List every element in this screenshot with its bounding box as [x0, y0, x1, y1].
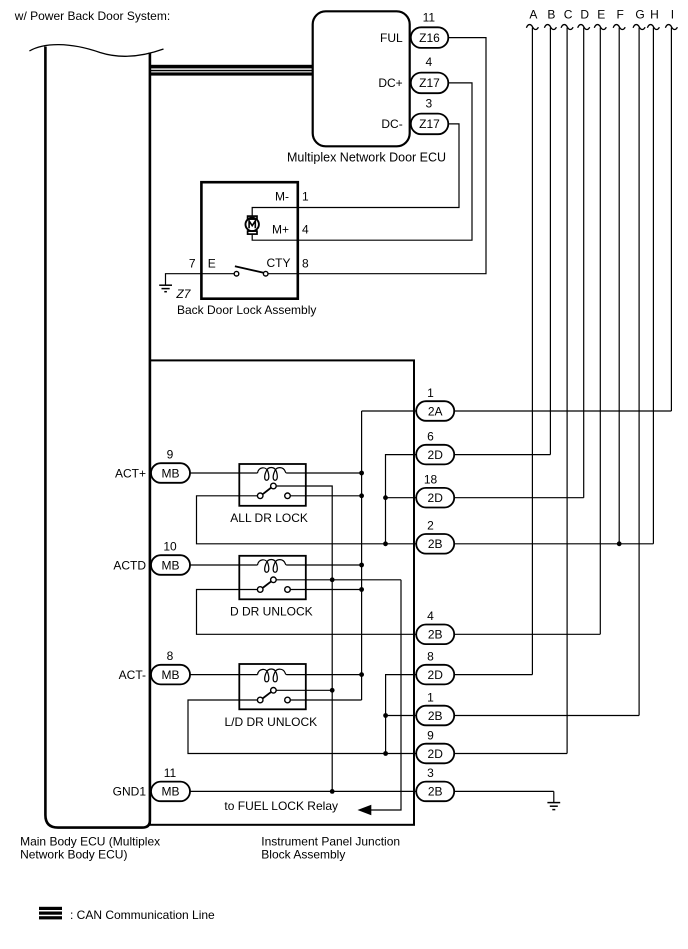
- svg-text:H: H: [650, 8, 659, 22]
- CAN legend symbol: [39, 907, 62, 920]
- wire line A: [531, 28, 533, 675]
- svg-text:9: 9: [427, 728, 434, 742]
- svg-text:ALL DR LOCK: ALL DR LOCK: [230, 511, 308, 525]
- connector 2D pin 18: [416, 473, 454, 508]
- svg-text:7: 7: [189, 257, 196, 271]
- svg-text:MB: MB: [162, 785, 180, 799]
- wire Z16 to CTY: [298, 38, 486, 274]
- node letters A-I: [529, 8, 674, 22]
- svg-text:Z17: Z17: [419, 76, 440, 90]
- wire line H: [652, 28, 654, 544]
- svg-text:E: E: [597, 8, 605, 22]
- svg-text:2B: 2B: [428, 785, 443, 799]
- svg-text:3: 3: [425, 96, 432, 110]
- svg-text:2B: 2B: [428, 537, 443, 551]
- wire 2B(4) row right: [454, 633, 600, 635]
- svg-text:2: 2: [427, 519, 434, 533]
- relay ALL DR LOCK: [230, 464, 308, 525]
- svg-text:18: 18: [424, 473, 438, 487]
- svg-text:2D: 2D: [428, 491, 444, 505]
- wire 2B(2) row right: [454, 543, 653, 545]
- wire ACT+ row: [190, 472, 362, 474]
- svg-text:to FUEL LOCK Relay: to FUEL LOCK Relay: [224, 799, 338, 813]
- connector 2B pin 1: [416, 690, 454, 725]
- svg-text:I: I: [671, 8, 674, 22]
- ground at 2B(3): [547, 791, 560, 809]
- wire CTY: [268, 273, 298, 275]
- wire line B: [549, 28, 551, 455]
- wire 2D(8) row right: [454, 674, 532, 676]
- svg-text:8: 8: [427, 649, 434, 663]
- arrow to FUEL LOCK relay: [358, 805, 372, 815]
- wire motor M+: [252, 235, 298, 241]
- ground Z7: [159, 285, 172, 292]
- wire 2D(9) row right: [454, 753, 567, 755]
- connector MB pin 10 (ACTD): [113, 539, 190, 574]
- svg-text:DC+: DC+: [378, 76, 402, 90]
- svg-text:B: B: [547, 8, 555, 22]
- svg-text:4: 4: [427, 609, 434, 623]
- svg-text:M+: M+: [272, 223, 289, 237]
- connector MB pin 9 (ACT+): [115, 447, 190, 482]
- svg-text:11: 11: [423, 11, 436, 25]
- wire D DR UNLOCK NO contact: [290, 589, 362, 591]
- wire D DR UNLOCK NC loop to 2B(4): [197, 590, 417, 635]
- svg-text:10: 10: [163, 539, 177, 553]
- wire 2D(18) row: [386, 497, 584, 499]
- connector 2D pin 8: [416, 649, 454, 684]
- connector MB pin 8 (ACT-): [119, 649, 190, 684]
- svg-text:6: 6: [427, 429, 434, 443]
- svg-text:1: 1: [302, 190, 309, 204]
- wire GND1 row: [190, 790, 554, 792]
- connector 2D pin 6: [416, 429, 454, 464]
- svg-text:Z16: Z16: [419, 31, 440, 45]
- connector Z16: [411, 27, 449, 48]
- junction dots: [359, 471, 364, 476]
- break tildes: [526, 25, 677, 30]
- wire line E: [599, 28, 601, 635]
- svg-text:MB: MB: [162, 466, 180, 480]
- junction dots: [330, 471, 622, 794]
- connector 2B pin 4: [416, 609, 454, 644]
- wire ALL DR LOCK NC loop to 2B(2): [197, 496, 417, 544]
- wire ACTD row: [190, 564, 362, 566]
- svg-text:DC-: DC-: [381, 117, 402, 131]
- wire Z17 pin4 to M+: [298, 83, 472, 240]
- wire L/D DR UNLOCK NO contact: [290, 699, 362, 701]
- svg-text:4: 4: [425, 55, 432, 69]
- svg-text:ACT+: ACT+: [115, 466, 146, 480]
- wire line F: [618, 28, 620, 544]
- connector 2D pin 9: [416, 728, 454, 763]
- wire line G: [638, 28, 640, 716]
- svg-text:11: 11: [164, 766, 177, 780]
- svg-text:2B: 2B: [428, 628, 443, 642]
- svg-text:4: 4: [302, 223, 309, 237]
- svg-text:MB: MB: [162, 558, 180, 572]
- svg-text:Network Body ECU): Network Body ECU): [20, 848, 127, 862]
- Instrument Panel Junction Block box: [150, 360, 414, 824]
- CAN communication line: [150, 65, 313, 76]
- svg-text:A: A: [529, 8, 537, 22]
- svg-text:1: 1: [427, 386, 434, 400]
- svg-text:MB: MB: [162, 668, 180, 682]
- svg-text:C: C: [564, 8, 573, 22]
- relay D DR UNLOCK: [230, 556, 313, 619]
- svg-text:Multiplex Network Door ECU: Multiplex Network Door ECU: [287, 151, 446, 165]
- svg-text:CTY: CTY: [267, 256, 291, 270]
- svg-text:Z7: Z7: [175, 287, 191, 301]
- wire 2D(8) loop: [386, 675, 417, 754]
- svg-text:2B: 2B: [428, 709, 443, 723]
- svg-text:Z17: Z17: [419, 117, 440, 131]
- wires main: [188, 411, 671, 791]
- svg-text:G: G: [635, 8, 644, 22]
- Main Body ECU box (torn top, rounded bottom): [29, 45, 163, 828]
- wire 2B(1) row: [386, 715, 639, 717]
- wire 2D(6) loop: [386, 455, 417, 544]
- Back Door Lock Assembly box: [201, 182, 297, 299]
- svg-text:Main Body ECU (Multiplex: Main Body ECU (Multiplex: [20, 834, 160, 848]
- wire Z17 pin3 to M-: [298, 124, 459, 208]
- wire vertical bus to 2A: [361, 411, 363, 700]
- svg-text:E: E: [208, 257, 216, 271]
- svg-text:D: D: [580, 8, 589, 22]
- wire 2D(6) row right: [454, 454, 550, 456]
- connector Z17 pin4: [411, 73, 449, 94]
- wire line D: [583, 28, 585, 498]
- connector 2B pin 3: [416, 766, 454, 801]
- svg-text:8: 8: [302, 257, 309, 271]
- wire L/D DR UNLOCK NC loop to 2D(9): [188, 700, 416, 754]
- svg-text:GND1: GND1: [113, 785, 147, 799]
- wire ACT- row: [190, 674, 362, 676]
- svg-text:3: 3: [427, 766, 434, 780]
- wire motor M-: [252, 208, 298, 216]
- svg-text:L/D DR UNLOCK: L/D DR UNLOCK: [225, 715, 318, 729]
- svg-text:1: 1: [427, 690, 434, 704]
- svg-text:8: 8: [167, 649, 174, 663]
- svg-text:w/ Power Back Door System:: w/ Power Back Door System:: [14, 9, 170, 23]
- motor M1: [246, 216, 259, 234]
- svg-text:F: F: [617, 8, 624, 22]
- svg-text:: CAN Communication Line: : CAN Communication Line: [70, 908, 215, 922]
- wire line I: [670, 28, 672, 412]
- connector 2B pin 2: [416, 519, 454, 554]
- connector 2A pin 1: [416, 386, 454, 421]
- svg-text:Block Assembly: Block Assembly: [261, 848, 345, 862]
- svg-text:Back Door Lock Assembly: Back Door Lock Assembly: [177, 303, 316, 317]
- wire E to ground: [166, 274, 235, 285]
- svg-text:Instrument Panel Junction: Instrument Panel Junction: [261, 834, 400, 848]
- relay L/D DR UNLOCK: [225, 664, 318, 729]
- svg-text:2D: 2D: [428, 448, 444, 462]
- svg-text:ACT-: ACT-: [119, 668, 146, 682]
- svg-text:FUL: FUL: [380, 31, 403, 45]
- courtesy switch: [234, 266, 268, 276]
- svg-text:9: 9: [167, 447, 174, 461]
- Multiplex Network Door ECU box: [313, 11, 410, 146]
- svg-text:M-: M-: [275, 190, 289, 204]
- svg-text:D DR UNLOCK: D DR UNLOCK: [230, 605, 313, 619]
- connector Z17 pin3: [411, 114, 449, 135]
- wire 2A row: [362, 410, 672, 412]
- wire D DR UNLOCK common contact: [276, 579, 401, 581]
- svg-text:2A: 2A: [428, 404, 443, 418]
- svg-text:ACTD: ACTD: [113, 558, 146, 572]
- wire L/D DR UNLOCK common contact: [276, 689, 333, 691]
- wire ALL DR LOCK common contact: [276, 486, 333, 791]
- wire ALL DR LOCK NO contact: [290, 495, 362, 497]
- connector MB pin 11 (GND1): [113, 766, 190, 801]
- svg-text:2D: 2D: [428, 747, 444, 761]
- svg-text:2D: 2D: [428, 668, 444, 682]
- wire line C: [566, 28, 568, 754]
